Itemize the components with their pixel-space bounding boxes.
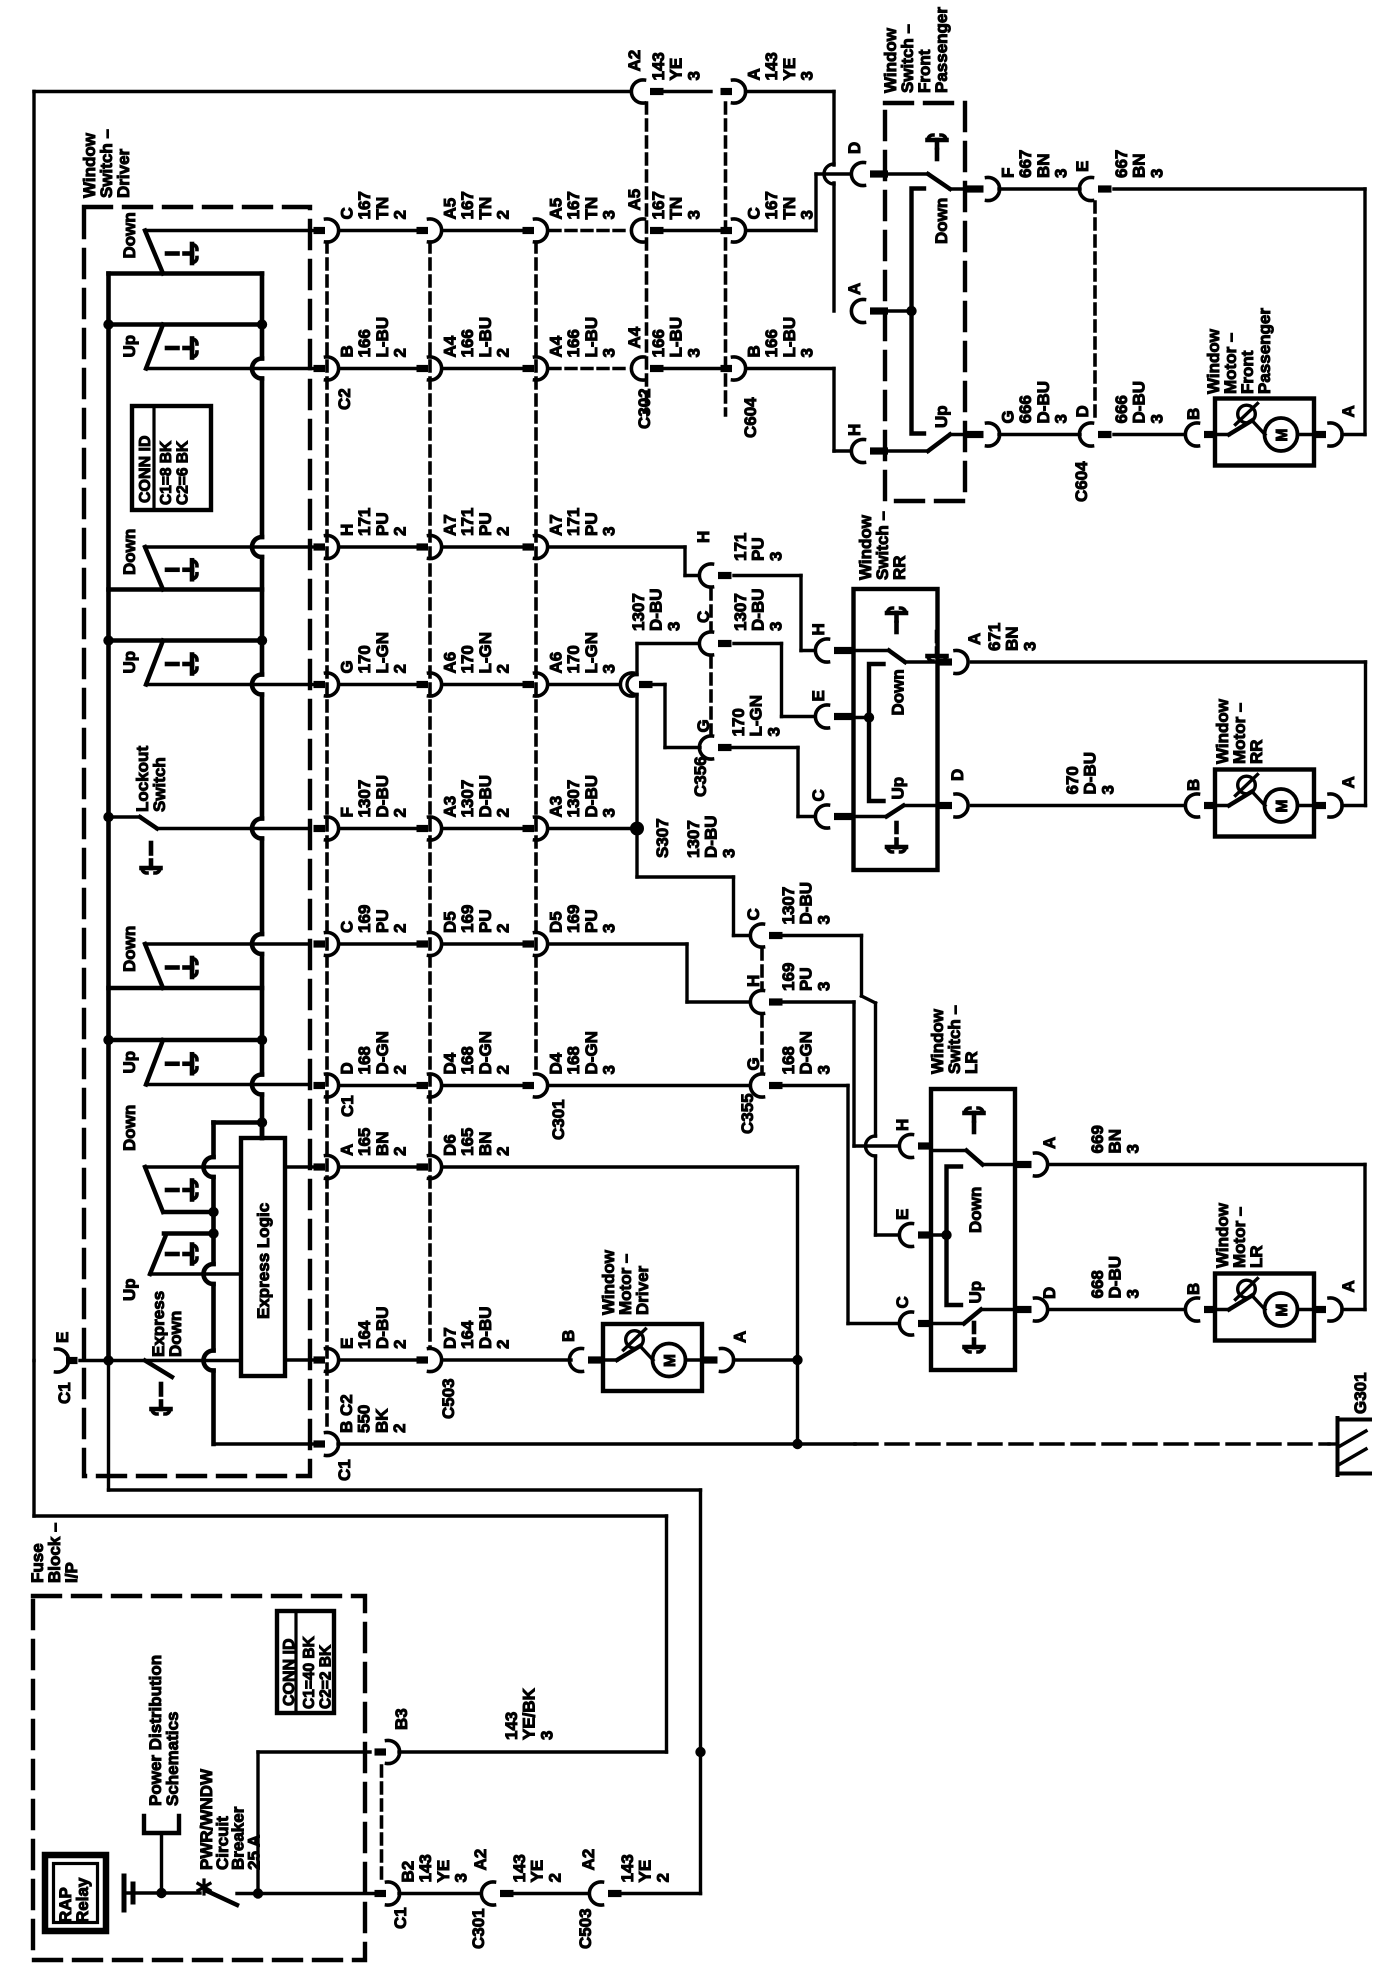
FP up label bbox=[932, 405, 951, 428]
svg-text:WindowSwitch –LR: WindowSwitch –LR bbox=[928, 1005, 981, 1074]
svg-text:1307D-BU3: 1307D-BU3 bbox=[731, 589, 785, 632]
splice S307 bbox=[630, 818, 672, 858]
label C356 bbox=[691, 756, 710, 797]
svg-text:B C2550BK2: B C2550BK2 bbox=[337, 1394, 409, 1433]
wire 668 D-BU bbox=[1049, 1256, 1185, 1310]
label C2 under driver connector bbox=[335, 388, 354, 410]
fuse block label bbox=[28, 1523, 81, 1583]
svg-text:143YE2: 143YE2 bbox=[618, 1854, 672, 1882]
svg-text:S307: S307 bbox=[653, 818, 672, 858]
svg-text:G666D-BU3: G666D-BU3 bbox=[999, 381, 1071, 424]
connector B window motor driver bbox=[559, 1330, 605, 1372]
svg-text:B3: B3 bbox=[392, 1708, 411, 1730]
connector A LR motor bbox=[1314, 1280, 1359, 1321]
connector B3 fuse block bbox=[375, 1687, 557, 1763]
svg-text:667BN3: 667BN3 bbox=[1112, 150, 1166, 178]
FP common bracket bbox=[912, 189, 925, 434]
connector D on 666 C604 bbox=[1072, 381, 1166, 502]
svg-text:Down: Down bbox=[120, 529, 139, 575]
wire 667 F to E bbox=[999, 187, 1080, 190]
column C604 dashes bbox=[724, 103, 728, 415]
svg-text:Down: Down bbox=[889, 669, 908, 715]
wire 1307 to LR E pin bbox=[777, 936, 899, 1236]
svg-text:A6170L-GN3: A6170L-GN3 bbox=[547, 632, 619, 674]
svg-text:WindowSwitch –Driver: WindowSwitch –Driver bbox=[80, 129, 133, 198]
svg-text:C: C bbox=[893, 1296, 912, 1308]
window motor front passenger bbox=[1204, 308, 1314, 466]
connector A2 C302 on 143 YE bbox=[625, 50, 711, 103]
svg-text:H171PU2: H171PU2 bbox=[338, 508, 410, 536]
wire 143 YE to C503 bbox=[508, 1892, 589, 1895]
wire 143 YE to riser bbox=[616, 1892, 701, 1895]
svg-text:C503: C503 bbox=[439, 1378, 458, 1419]
svg-text:LockoutSwitch: LockoutSwitch bbox=[133, 746, 169, 812]
connector A window motor driver bbox=[703, 1331, 750, 1372]
svg-text:168D-GN3: 168D-GN3 bbox=[779, 1031, 833, 1074]
connector G C355 bbox=[744, 1031, 833, 1097]
bus common px262 bbox=[252, 274, 262, 1139]
svg-text:D4168D-GN2: D4168D-GN2 bbox=[441, 1031, 513, 1074]
power distribution bracket bbox=[144, 1655, 182, 1898]
wire 171 to RR H pin bbox=[734, 576, 815, 651]
FP detent top bbox=[928, 135, 947, 164]
svg-text:C167TN3: C167TN3 bbox=[745, 191, 817, 219]
svg-text:C604: C604 bbox=[1072, 461, 1091, 502]
wire 667 to motor A bbox=[1114, 189, 1365, 435]
driver switch pair LR (Down/Up) bbox=[103, 926, 310, 1085]
column C1/C2 dashes bbox=[325, 242, 329, 1432]
column B3/B2 dashes bbox=[380, 1766, 384, 1880]
chain 1307 D-BU row bbox=[314, 775, 638, 840]
svg-text:M: M bbox=[662, 1354, 679, 1367]
svg-text:Express Logic: Express Logic bbox=[254, 1203, 273, 1319]
svg-text:D: D bbox=[948, 769, 967, 781]
label C604 bbox=[741, 397, 760, 438]
connector E RR switch bbox=[809, 690, 855, 728]
svg-text:A: A bbox=[845, 283, 864, 295]
connector B2 C1 fuse block bbox=[375, 1854, 471, 1929]
svg-text:M: M bbox=[1274, 1304, 1291, 1317]
svg-text:C355: C355 bbox=[738, 1093, 757, 1134]
conn id box fuse block bbox=[277, 1611, 335, 1713]
connector A RR motor bbox=[1314, 776, 1359, 817]
wire 170 to C356 G bbox=[647, 685, 700, 748]
svg-text:D6165BN2: D6165BN2 bbox=[441, 1128, 513, 1156]
svg-text:A7171PU2: A7171PU2 bbox=[441, 508, 513, 536]
connector A2 C503 bottom bbox=[576, 1849, 672, 1949]
svg-text:F1307D-BU2: F1307D-BU2 bbox=[338, 775, 410, 818]
svg-text:Up: Up bbox=[889, 777, 908, 800]
window motor RR bbox=[1213, 698, 1314, 836]
svg-text:Up: Up bbox=[120, 651, 139, 674]
driver switch pair RR (Down/Up) bbox=[103, 529, 310, 685]
chain 166 L-BU row bbox=[310, 317, 834, 380]
connector F FP switch bbox=[966, 150, 1071, 201]
FP switch dashed box bbox=[885, 103, 965, 501]
driver switch pair FP (Down/Up) bbox=[103, 212, 310, 368]
wire 671 BN bbox=[972, 623, 1366, 806]
svg-text:E: E bbox=[53, 1332, 72, 1343]
svg-text:Up: Up bbox=[120, 1051, 139, 1074]
svg-text:C1: C1 bbox=[335, 1459, 354, 1481]
svg-text:M: M bbox=[1274, 429, 1291, 442]
svg-text:E164D-BU2: E164D-BU2 bbox=[338, 1307, 410, 1350]
wire 169 to LR H pin bbox=[777, 1002, 899, 1146]
connector C LR switch bbox=[893, 1296, 933, 1335]
svg-text:A2: A2 bbox=[579, 1849, 598, 1871]
svg-text:C604: C604 bbox=[741, 397, 760, 438]
svg-text:Up: Up bbox=[932, 405, 951, 428]
svg-text:1307D-BU3: 1307D-BU3 bbox=[629, 589, 683, 632]
svg-text:1307D-BU3: 1307D-BU3 bbox=[684, 816, 738, 859]
svg-text:A2: A2 bbox=[625, 50, 644, 72]
svg-text:C169PU2: C169PU2 bbox=[338, 905, 410, 933]
label C301 bbox=[549, 1099, 568, 1140]
svg-text:C: C bbox=[809, 789, 828, 801]
svg-text:Down: Down bbox=[120, 926, 139, 972]
svg-text:H: H bbox=[845, 424, 864, 436]
connector H RR switch bbox=[809, 623, 855, 662]
svg-text:FuseBlock –I/P: FuseBlock –I/P bbox=[28, 1523, 81, 1583]
conn id box driver bbox=[132, 406, 211, 510]
svg-text:B: B bbox=[1184, 779, 1203, 791]
svg-text:CONN ID: CONN ID bbox=[281, 1638, 298, 1706]
ground link px213 bbox=[204, 1117, 315, 1444]
svg-text:D: D bbox=[1073, 405, 1092, 417]
wire 670 D-BU bbox=[972, 752, 1186, 806]
connector H C356 bbox=[694, 531, 785, 587]
svg-text:B: B bbox=[559, 1330, 578, 1342]
svg-text:WindowMotor –FrontPassenger: WindowMotor –FrontPassenger bbox=[1204, 308, 1274, 394]
svg-text:170L-GN3: 170L-GN3 bbox=[729, 695, 783, 737]
svg-text:G: G bbox=[744, 1057, 763, 1070]
svg-text:C1: C1 bbox=[55, 1382, 74, 1404]
FP wire to G pin bbox=[950, 433, 964, 436]
window switch LR bbox=[928, 1005, 1015, 1370]
ground G301 bbox=[1329, 1372, 1370, 1475]
connector C RR switch bbox=[809, 789, 855, 828]
connector C C356 bbox=[694, 589, 785, 656]
svg-text:WindowMotor –Driver: WindowMotor –Driver bbox=[599, 1249, 652, 1315]
wire 1307 to RR E pin bbox=[627, 589, 815, 829]
label C1 under driver connector bbox=[338, 1095, 357, 1117]
svg-text:D4168D-GN3: D4168D-GN3 bbox=[547, 1031, 619, 1074]
svg-text:D5169PU3: D5169PU3 bbox=[547, 905, 619, 933]
chain 165 BN row bbox=[285, 1128, 798, 1179]
connector A RR switch bbox=[938, 633, 984, 674]
svg-text:C503: C503 bbox=[576, 1908, 595, 1949]
chain 169 PU row bbox=[314, 905, 688, 956]
svg-text:A31307D-BU3: A31307D-BU3 bbox=[547, 775, 619, 818]
svg-text:PWR/WNDWCircuitBreaker25 A: PWR/WNDWCircuitBreaker25 A bbox=[197, 1768, 263, 1870]
svg-text:A6170L-GN2: A6170L-GN2 bbox=[441, 632, 513, 674]
connector D FP switch bbox=[845, 142, 888, 186]
column C302 dashes bbox=[645, 103, 649, 412]
label C355 bbox=[738, 1093, 757, 1134]
wire breaker to C1 bbox=[258, 1752, 374, 1894]
svg-text:H: H bbox=[694, 531, 713, 543]
svg-text:A: A bbox=[1040, 1137, 1059, 1149]
connector A LR switch bbox=[1016, 1137, 1060, 1176]
svg-text:C356: C356 bbox=[691, 756, 710, 797]
wire 166 to FP H pin bbox=[834, 369, 851, 452]
lockout switch bbox=[103, 746, 310, 873]
FP up blade bbox=[928, 435, 950, 452]
chain 164 D-BU row bbox=[285, 1307, 571, 1372]
FP detent bottom bbox=[928, 632, 947, 661]
svg-text:WindowMotor –LR: WindowMotor –LR bbox=[1213, 1202, 1266, 1268]
chain 171 PU row bbox=[310, 508, 685, 559]
svg-text:E: E bbox=[1073, 161, 1092, 172]
fuse block dashed box bbox=[33, 1596, 365, 1960]
wire 168 to LR C pin bbox=[777, 1086, 899, 1324]
connector H FP switch bbox=[845, 424, 888, 463]
svg-text:D: D bbox=[1040, 1287, 1059, 1299]
svg-text:F667BN3: F667BN3 bbox=[999, 150, 1071, 178]
svg-text:D168D-GN2: D168D-GN2 bbox=[338, 1031, 410, 1074]
svg-text:G170L-GN2: G170L-GN2 bbox=[338, 632, 410, 674]
connector G C356 bbox=[694, 695, 783, 759]
wire motor driver A return bbox=[734, 1358, 798, 1361]
window switch front passenger label bbox=[881, 7, 951, 93]
svg-text:167TN3: 167TN3 bbox=[649, 191, 703, 219]
svg-text:G301: G301 bbox=[1351, 1372, 1370, 1414]
svg-text:M: M bbox=[1274, 800, 1291, 813]
rap relay bbox=[45, 1855, 106, 1931]
window switch driver label bbox=[80, 129, 133, 198]
svg-text:A5167TN3: A5167TN3 bbox=[547, 191, 619, 219]
svg-text:171PU3: 171PU3 bbox=[731, 533, 785, 561]
chain 550 BK ground row bbox=[314, 1394, 1330, 1481]
svg-text:C: C bbox=[694, 611, 713, 623]
chain 168 D-GN row bbox=[314, 1031, 751, 1097]
svg-text:A165BN2: A165BN2 bbox=[338, 1128, 410, 1156]
svg-text:B166L-BU3: B166L-BU3 bbox=[745, 317, 817, 358]
svg-text:143YE/BK3: 143YE/BK3 bbox=[502, 1687, 556, 1740]
connector B LR motor bbox=[1184, 1283, 1217, 1321]
svg-text:Up: Up bbox=[120, 1278, 139, 1301]
svg-text:A: A bbox=[965, 633, 984, 645]
express down switch bbox=[80, 1291, 241, 1414]
svg-text:H: H bbox=[809, 623, 828, 635]
wire 143 YE power feed top border bbox=[34, 92, 630, 1361]
svg-text:Down: Down bbox=[966, 1187, 985, 1233]
label C503 bbox=[439, 1378, 458, 1419]
wire net border feed loop bbox=[34, 1361, 667, 1753]
FP down blade bbox=[928, 174, 950, 189]
FP down label bbox=[932, 198, 951, 244]
svg-text:C301: C301 bbox=[549, 1099, 568, 1140]
svg-text:A4166L-BU3: A4166L-BU3 bbox=[547, 317, 619, 358]
svg-text:A4: A4 bbox=[625, 326, 644, 348]
wire 169 to C355 H bbox=[687, 944, 750, 1002]
svg-text:A5167TN2: A5167TN2 bbox=[441, 191, 513, 219]
svg-text:A5: A5 bbox=[625, 189, 644, 211]
wire 669 BN bbox=[1049, 1125, 1365, 1309]
connector E C1 left border bbox=[53, 1332, 78, 1404]
svg-text:143YE2: 143YE2 bbox=[510, 1854, 564, 1882]
pwr wndw circuit breaker bbox=[164, 1768, 263, 1905]
svg-text:A: A bbox=[1339, 776, 1358, 788]
express logic box bbox=[241, 1123, 285, 1377]
wire net E/C1 feed loop bbox=[109, 1361, 706, 1894]
svg-text:B166L-BU2: B166L-BU2 bbox=[338, 317, 410, 358]
wire 170 to RR C pin bbox=[727, 748, 815, 817]
svg-text:C: C bbox=[744, 908, 763, 920]
connector C C355 bbox=[744, 882, 833, 947]
connector A C604 on 143 YE bbox=[721, 52, 817, 103]
column C301 dashes bbox=[534, 242, 538, 1072]
svg-text:B: B bbox=[1184, 1283, 1203, 1295]
chain 167 TN row bbox=[310, 189, 817, 242]
svg-text:D5169PU2: D5169PU2 bbox=[441, 905, 513, 933]
svg-text:B: B bbox=[1184, 408, 1203, 420]
connector 170 inline bbox=[620, 673, 652, 696]
svg-text:A: A bbox=[1339, 1280, 1358, 1292]
connector B RR motor bbox=[1184, 779, 1217, 817]
wire 666 G to D bbox=[999, 433, 1080, 436]
svg-text:C1=40 BKC2=2 BK: C1=40 BKC2=2 BK bbox=[301, 1635, 335, 1709]
connector G FP switch bbox=[966, 381, 1071, 446]
svg-text:RAPRelay: RAPRelay bbox=[56, 1877, 92, 1923]
svg-text:Up: Up bbox=[966, 1281, 985, 1304]
svg-text:A31307D-BU2: A31307D-BU2 bbox=[441, 775, 513, 818]
wire 666 to motor B bbox=[1114, 433, 1185, 436]
svg-text:A143YE3: A143YE3 bbox=[745, 52, 817, 80]
driver switch pair Driver (Down/Up/Express) bbox=[120, 1105, 241, 1301]
svg-text:169PU3: 169PU3 bbox=[779, 963, 833, 991]
connector E on 667 bbox=[1073, 150, 1166, 201]
svg-text:143YE3: 143YE3 bbox=[649, 52, 703, 80]
svg-text:A: A bbox=[1339, 405, 1358, 417]
connector B FP motor bbox=[1184, 408, 1217, 446]
FP wire to F pin bbox=[950, 187, 964, 190]
svg-text:WindowMotor –RR: WindowMotor –RR bbox=[1213, 698, 1266, 764]
window motor LR bbox=[1213, 1202, 1314, 1340]
wire 165 ground drop bbox=[792, 1167, 802, 1449]
svg-text:Down: Down bbox=[120, 212, 139, 258]
svg-text:E: E bbox=[893, 1209, 912, 1220]
rap relay terminal bbox=[124, 1876, 164, 1910]
window switch RR bbox=[854, 511, 938, 870]
svg-text:A2: A2 bbox=[471, 1849, 490, 1871]
svg-text:C301: C301 bbox=[469, 1908, 488, 1949]
svg-text:ExpressDown: ExpressDown bbox=[149, 1291, 185, 1357]
svg-text:D7164D-BU2: D7164D-BU2 bbox=[441, 1307, 513, 1350]
wire 1307 to C355 C bbox=[637, 816, 750, 936]
chain 170 L-GN row bbox=[310, 632, 620, 696]
window motor driver bbox=[599, 1249, 702, 1391]
svg-text:Up: Up bbox=[120, 335, 139, 358]
column C356 dashes bbox=[709, 589, 713, 733]
svg-text:Down: Down bbox=[932, 198, 951, 244]
connector H LR switch bbox=[893, 1119, 933, 1158]
svg-text:Down: Down bbox=[120, 1105, 139, 1151]
svg-text:C2: C2 bbox=[335, 388, 354, 410]
bus B+ px108 bbox=[106, 274, 111, 1361]
connector E LR switch bbox=[893, 1209, 933, 1247]
svg-text:D: D bbox=[845, 142, 864, 154]
wire 143 YE to FP switch bbox=[746, 92, 835, 312]
svg-text:668D-BU3: 668D-BU3 bbox=[1088, 1256, 1142, 1299]
svg-text:A: A bbox=[731, 1331, 750, 1343]
FP H pin wire bbox=[888, 449, 928, 452]
connector H C355 bbox=[744, 963, 833, 1014]
svg-text:C1=8 BKC2=6 BK: C1=8 BKC2=6 BK bbox=[158, 440, 192, 505]
svg-text:669BN3: 669BN3 bbox=[1088, 1125, 1142, 1153]
FP down contact wire bbox=[888, 172, 928, 175]
svg-text:A7171PU3: A7171PU3 bbox=[547, 508, 619, 536]
label C302 bbox=[635, 388, 654, 429]
svg-text:166L-BU3: 166L-BU3 bbox=[649, 317, 703, 358]
svg-text:Power DistributionSchematics: Power DistributionSchematics bbox=[146, 1655, 182, 1806]
svg-text:B2143YE3: B2143YE3 bbox=[399, 1854, 471, 1882]
svg-text:C1: C1 bbox=[391, 1907, 410, 1929]
svg-text:666D-BU3: 666D-BU3 bbox=[1112, 381, 1166, 424]
svg-text:671BN3: 671BN3 bbox=[985, 623, 1039, 651]
connector A2 C301 bottom bbox=[469, 1849, 564, 1949]
column C355 dashes bbox=[760, 949, 764, 1072]
svg-text:WindowSwitch –RR: WindowSwitch –RR bbox=[856, 511, 909, 580]
window switch driver dashed box bbox=[84, 207, 310, 1476]
svg-text:C1: C1 bbox=[338, 1095, 357, 1117]
wire 167 to FP D pin bbox=[816, 164, 851, 231]
wire 171 to C356 bbox=[685, 547, 699, 576]
svg-text:C167TN2: C167TN2 bbox=[338, 191, 410, 219]
connector A FP switch bbox=[845, 283, 888, 323]
svg-text:A4166L-BU2: A4166L-BU2 bbox=[441, 317, 513, 358]
svg-text:E: E bbox=[809, 690, 828, 701]
connector D LR switch bbox=[1016, 1287, 1060, 1321]
column 667/666 dashes bbox=[1093, 202, 1097, 422]
svg-text:CONN ID: CONN ID bbox=[137, 435, 154, 503]
column C503 dashes bbox=[428, 242, 432, 1348]
connector A FP motor bbox=[1314, 405, 1359, 446]
svg-text:H: H bbox=[744, 975, 763, 987]
svg-text:670D-BU3: 670D-BU3 bbox=[1063, 752, 1117, 795]
wire 143 YE to C301 bbox=[399, 1892, 481, 1895]
svg-text:C302: C302 bbox=[635, 388, 654, 429]
svg-text:H: H bbox=[893, 1119, 912, 1131]
connector D RR switch bbox=[938, 769, 968, 817]
svg-text:1307D-BU3: 1307D-BU3 bbox=[779, 882, 833, 925]
svg-text:WindowSwitch –FrontPassenger: WindowSwitch –FrontPassenger bbox=[881, 7, 951, 93]
FP A pin wire bbox=[888, 306, 917, 316]
